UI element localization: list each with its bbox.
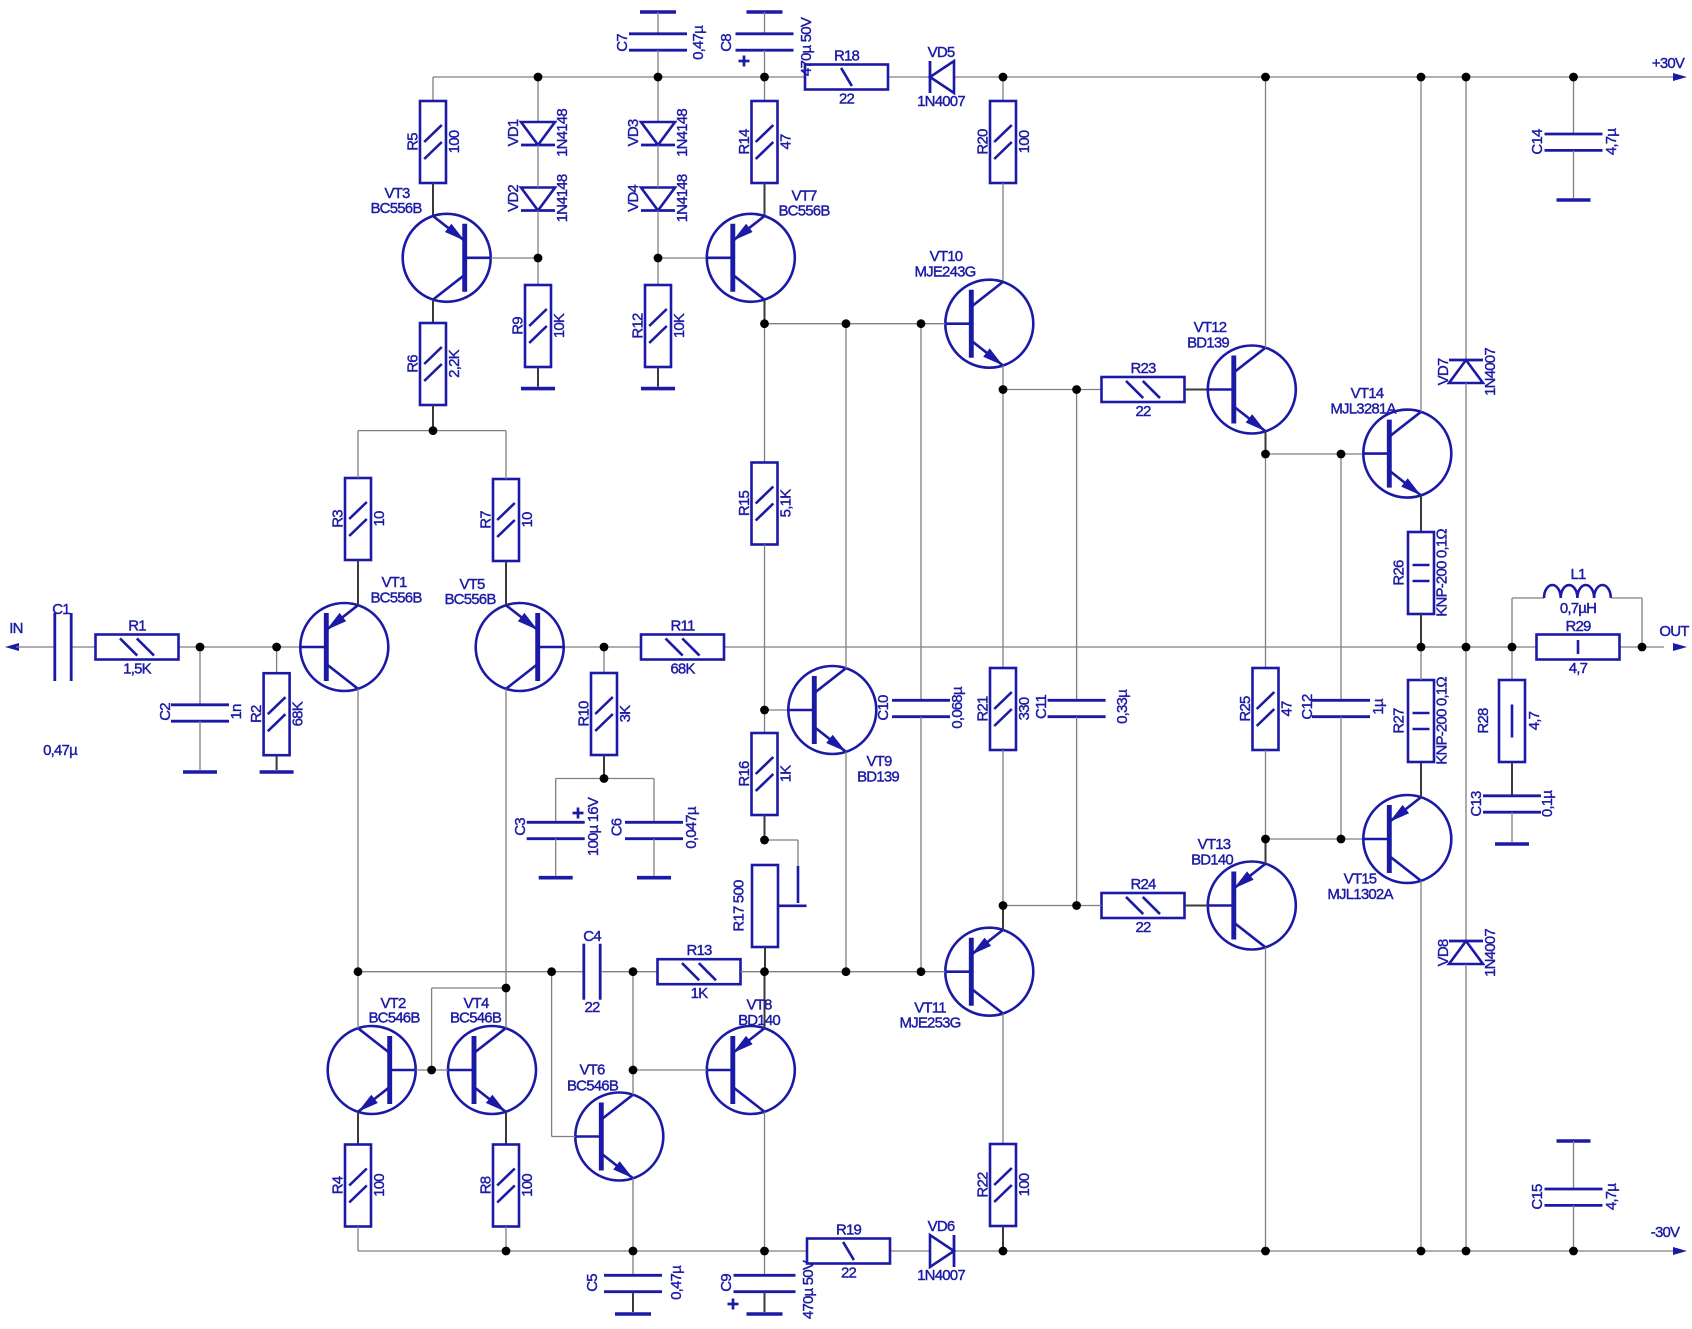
svg-text:BC556B: BC556B bbox=[370, 200, 422, 217]
svg-text:BD139: BD139 bbox=[857, 768, 899, 785]
svg-text:R7: R7 bbox=[477, 511, 494, 529]
svg-text:R14: R14 bbox=[736, 129, 753, 155]
svg-text:1K: 1K bbox=[691, 985, 709, 1002]
svg-text:VT12: VT12 bbox=[1194, 319, 1227, 336]
svg-text:KNP-200 0,1Ω: KNP-200 0,1Ω bbox=[1433, 529, 1450, 617]
svg-text:C6: C6 bbox=[608, 818, 625, 836]
svg-text:BC546B: BC546B bbox=[567, 1077, 619, 1094]
svg-text:100: 100 bbox=[1016, 130, 1033, 153]
svg-text:R26: R26 bbox=[1390, 560, 1407, 586]
svg-text:1N4007: 1N4007 bbox=[917, 93, 965, 110]
svg-text:0,1µ: 0,1µ bbox=[1539, 790, 1556, 817]
svg-text:1µ: 1µ bbox=[1370, 698, 1387, 715]
svg-text:0,47µ: 0,47µ bbox=[668, 1265, 685, 1300]
svg-text:R22: R22 bbox=[974, 1172, 991, 1198]
svg-text:C10: C10 bbox=[875, 695, 892, 721]
svg-text:R24: R24 bbox=[1130, 876, 1156, 893]
svg-text:100µ 16V: 100µ 16V bbox=[585, 797, 602, 856]
svg-text:VD3: VD3 bbox=[625, 119, 642, 146]
svg-text:R20: R20 bbox=[974, 129, 991, 155]
svg-text:10K: 10K bbox=[551, 313, 568, 338]
svg-text:C13: C13 bbox=[1468, 791, 1485, 817]
svg-text:C9: C9 bbox=[718, 1274, 735, 1292]
svg-text:VT15: VT15 bbox=[1344, 870, 1377, 887]
svg-text:C12: C12 bbox=[1299, 694, 1316, 720]
svg-text:R6: R6 bbox=[404, 355, 421, 373]
svg-text:330: 330 bbox=[1016, 697, 1033, 720]
svg-text:100: 100 bbox=[446, 130, 463, 153]
svg-text:47: 47 bbox=[777, 134, 794, 150]
svg-text:BC556B: BC556B bbox=[444, 591, 496, 608]
svg-text:22: 22 bbox=[584, 999, 600, 1016]
svg-text:0,47µ: 0,47µ bbox=[690, 25, 707, 60]
svg-text:470µ 50V: 470µ 50V bbox=[800, 1260, 817, 1319]
svg-text:0,068µ: 0,068µ bbox=[949, 686, 966, 729]
svg-text:VT10: VT10 bbox=[930, 248, 963, 265]
svg-text:22: 22 bbox=[841, 1264, 857, 1281]
svg-text:R27: R27 bbox=[1390, 708, 1407, 734]
svg-text:4,7: 4,7 bbox=[1526, 711, 1543, 730]
svg-text:C15: C15 bbox=[1529, 1184, 1546, 1210]
svg-text:100: 100 bbox=[519, 1174, 536, 1197]
svg-text:47: 47 bbox=[1278, 701, 1295, 717]
svg-text:C11: C11 bbox=[1033, 695, 1050, 719]
svg-text:1N4148: 1N4148 bbox=[554, 109, 571, 157]
svg-text:BC556B: BC556B bbox=[778, 202, 830, 219]
svg-text:VD8: VD8 bbox=[1435, 939, 1452, 966]
svg-text:VD4: VD4 bbox=[625, 185, 642, 212]
svg-text:R12: R12 bbox=[629, 313, 646, 339]
svg-text:4,7µ: 4,7µ bbox=[1603, 1183, 1620, 1210]
svg-text:0,047µ: 0,047µ bbox=[683, 806, 700, 849]
svg-text:VD5: VD5 bbox=[928, 44, 955, 61]
svg-text:1K: 1K bbox=[777, 765, 794, 783]
svg-text:68K: 68K bbox=[290, 701, 307, 726]
svg-text:C4: C4 bbox=[583, 928, 601, 945]
svg-text:100: 100 bbox=[1016, 1173, 1033, 1196]
svg-text:R4: R4 bbox=[329, 1176, 346, 1194]
svg-text:R9: R9 bbox=[509, 317, 526, 335]
svg-text:R2: R2 bbox=[248, 705, 265, 723]
svg-text:R11: R11 bbox=[670, 617, 694, 634]
svg-text:L1: L1 bbox=[1570, 566, 1586, 583]
svg-text:R5: R5 bbox=[404, 133, 421, 151]
svg-text:1N4148: 1N4148 bbox=[674, 109, 691, 157]
svg-text:1N4148: 1N4148 bbox=[674, 174, 691, 222]
svg-text:22: 22 bbox=[839, 90, 855, 107]
svg-text:BC546B: BC546B bbox=[368, 1009, 420, 1026]
svg-text:BC556B: BC556B bbox=[370, 589, 422, 606]
svg-text:1,5K: 1,5K bbox=[123, 660, 151, 677]
svg-text:C5: C5 bbox=[584, 1274, 601, 1292]
svg-text:10: 10 bbox=[519, 512, 536, 528]
svg-text:2,2K: 2,2K bbox=[446, 349, 463, 377]
svg-text:C2: C2 bbox=[157, 703, 174, 721]
svg-text:BC546B: BC546B bbox=[450, 1009, 502, 1026]
svg-text:R15: R15 bbox=[736, 490, 753, 516]
svg-text:R17 500: R17 500 bbox=[730, 880, 747, 932]
svg-text:VD2: VD2 bbox=[505, 185, 522, 212]
svg-text:R18: R18 bbox=[834, 47, 860, 64]
svg-text:R1: R1 bbox=[128, 617, 146, 634]
svg-text:C14: C14 bbox=[1529, 129, 1546, 155]
svg-text:C1: C1 bbox=[52, 601, 70, 618]
svg-text:VT8: VT8 bbox=[746, 996, 772, 1013]
svg-text:MJE253G: MJE253G bbox=[899, 1014, 960, 1031]
svg-text:470µ 50V: 470µ 50V bbox=[798, 17, 815, 76]
svg-text:R16: R16 bbox=[736, 761, 753, 787]
svg-text:-30V: -30V bbox=[1651, 1224, 1680, 1241]
svg-text:OUT: OUT bbox=[1659, 623, 1689, 640]
svg-text:5,1K: 5,1K bbox=[777, 489, 794, 517]
svg-text:4,7µ: 4,7µ bbox=[1603, 128, 1620, 155]
svg-text:100: 100 bbox=[371, 1174, 388, 1197]
svg-text:C3: C3 bbox=[512, 818, 529, 836]
svg-text:0,33µ: 0,33µ bbox=[1114, 689, 1131, 724]
svg-text:+30V: +30V bbox=[1652, 55, 1685, 72]
svg-text:4,7: 4,7 bbox=[1569, 660, 1588, 677]
svg-text:MJL3281A: MJL3281A bbox=[1330, 400, 1396, 417]
svg-text:10K: 10K bbox=[671, 313, 688, 338]
svg-text:VT6: VT6 bbox=[579, 1061, 605, 1078]
svg-text:1N4007: 1N4007 bbox=[917, 1267, 965, 1284]
svg-text:KNP-200 0,1Ω: KNP-200 0,1Ω bbox=[1433, 677, 1450, 765]
svg-text:22: 22 bbox=[1135, 919, 1151, 936]
svg-text:3K: 3K bbox=[617, 705, 634, 723]
svg-text:R13: R13 bbox=[686, 942, 712, 959]
svg-text:VT1: VT1 bbox=[381, 574, 407, 591]
svg-text:0,7µH: 0,7µH bbox=[1560, 600, 1596, 617]
svg-text:R25: R25 bbox=[1237, 696, 1254, 722]
svg-text:R21: R21 bbox=[974, 696, 991, 722]
svg-text:1n: 1n bbox=[228, 704, 245, 720]
svg-text:R3: R3 bbox=[329, 510, 346, 528]
svg-text:BD140: BD140 bbox=[1191, 851, 1233, 868]
svg-text:R19: R19 bbox=[836, 1221, 862, 1238]
svg-text:VD1: VD1 bbox=[505, 119, 522, 146]
svg-text:IN: IN bbox=[9, 620, 22, 637]
svg-text:1N4148: 1N4148 bbox=[554, 174, 571, 222]
svg-text:C8: C8 bbox=[718, 34, 735, 52]
svg-text:22: 22 bbox=[1135, 403, 1151, 420]
svg-text:R10: R10 bbox=[575, 701, 592, 727]
svg-text:VD7: VD7 bbox=[1435, 358, 1452, 385]
svg-text:R29: R29 bbox=[1565, 618, 1591, 635]
svg-text:C7: C7 bbox=[614, 34, 631, 52]
svg-text:MJE243G: MJE243G bbox=[914, 263, 975, 280]
svg-text:VT13: VT13 bbox=[1198, 836, 1231, 853]
svg-text:R8: R8 bbox=[477, 1176, 494, 1194]
svg-text:1N4007: 1N4007 bbox=[1482, 348, 1499, 396]
svg-text:VT14: VT14 bbox=[1351, 385, 1384, 402]
svg-text:R28: R28 bbox=[1475, 708, 1492, 734]
svg-text:68K: 68K bbox=[670, 660, 695, 677]
svg-text:BD139: BD139 bbox=[1187, 334, 1229, 351]
svg-text:1N4007: 1N4007 bbox=[1482, 929, 1499, 977]
svg-text:VT9: VT9 bbox=[866, 753, 892, 770]
svg-text:10: 10 bbox=[371, 511, 388, 527]
svg-text:BD140: BD140 bbox=[738, 1012, 780, 1029]
svg-text:VD6: VD6 bbox=[928, 1218, 955, 1235]
svg-text:0,47µ: 0,47µ bbox=[43, 742, 78, 759]
svg-text:MJL1302A: MJL1302A bbox=[1327, 886, 1393, 903]
svg-text:R23: R23 bbox=[1130, 360, 1156, 377]
